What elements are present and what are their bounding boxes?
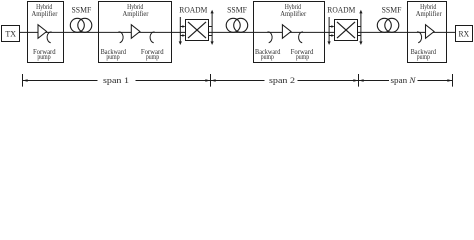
coupler forward pump arc HA2 bbox=[150, 32, 154, 43]
svg-text:pump: pump bbox=[417, 52, 430, 61]
node RX bbox=[456, 26, 473, 42]
ROADM2 box bbox=[335, 20, 358, 41]
label ROADM 1 bbox=[179, 4, 207, 14]
svg-text:span N: span N bbox=[391, 75, 417, 85]
amplifier triangle A3 bbox=[282, 25, 291, 39]
svg-text:Amplifier: Amplifier bbox=[32, 9, 58, 18]
label HA4 "Hybrid Amplifier" bbox=[416, 2, 442, 18]
svg-text:ROADM: ROADM bbox=[179, 4, 207, 14]
node TX bbox=[2, 26, 20, 42]
amplifier triangle A4 bbox=[426, 25, 435, 39]
svg-text:Amplifier: Amplifier bbox=[280, 9, 306, 18]
span ruler baseline bbox=[22, 80, 452, 82]
wire main bus bbox=[20, 31, 456, 33]
label HA2 "Backward pump" bbox=[101, 47, 126, 61]
label HA1 "Hybrid Amplifier" bbox=[32, 2, 58, 18]
coupler backward pump arc HA2 bbox=[119, 32, 124, 43]
label HA3 "Hybrid Amplifier" bbox=[280, 2, 306, 18]
svg-text:pump: pump bbox=[296, 52, 309, 61]
span ruler end bars bbox=[23, 74, 453, 87]
svg-text:pump: pump bbox=[261, 52, 274, 61]
fiber coil SSMF2 bbox=[226, 18, 248, 32]
label span 1 bbox=[98, 75, 136, 85]
svg-text:span 1: span 1 bbox=[103, 75, 129, 85]
label HA2 "Forward pump" bbox=[141, 47, 164, 61]
coupler forward pump arc HA3 bbox=[299, 32, 303, 43]
coupler backward pump arc HA3 bbox=[268, 32, 273, 43]
label span N bbox=[389, 75, 418, 85]
label SSMF 2 bbox=[227, 5, 247, 15]
hybrid amplifier HA1 box bbox=[28, 2, 64, 63]
svg-text:RX: RX bbox=[459, 28, 470, 38]
ROADM1 box bbox=[186, 20, 209, 41]
svg-text:pump: pump bbox=[106, 52, 119, 61]
span ruler arrowheads bbox=[23, 79, 453, 82]
label HA4 "Backward pump" bbox=[411, 47, 436, 61]
coupler backward pump arc HA4 bbox=[417, 32, 422, 43]
label ROADM 2 bbox=[327, 4, 355, 14]
hybrid amplifier HA2 box bbox=[99, 2, 172, 63]
svg-text:SSMF: SSMF bbox=[72, 5, 92, 15]
amplifier triangle A1 bbox=[38, 25, 47, 39]
ROADM2 add port right arrow bbox=[357, 10, 362, 45]
amplifier triangle A2 bbox=[131, 25, 140, 39]
label HA3 "Backward pump" bbox=[255, 47, 280, 61]
svg-text:ROADM: ROADM bbox=[327, 4, 355, 14]
label SSMF 1 bbox=[72, 5, 92, 15]
ROADM1 cross switch bbox=[188, 22, 206, 38]
svg-text:Amplifier: Amplifier bbox=[416, 9, 442, 18]
ROADM2 cross switch bbox=[337, 22, 355, 38]
ROADM1 drop port left arrow bbox=[179, 17, 186, 45]
fiber coil SSMF1 bbox=[70, 18, 92, 32]
svg-text:SSMF: SSMF bbox=[382, 5, 402, 15]
ROADM2 drop port left arrow bbox=[328, 17, 335, 45]
svg-text:pump: pump bbox=[37, 52, 50, 61]
coupler forward pump arc HA1 bbox=[47, 32, 51, 43]
label span 2 bbox=[265, 75, 298, 85]
svg-text:span 2: span 2 bbox=[269, 75, 295, 85]
svg-text:SSMF: SSMF bbox=[227, 5, 247, 15]
label HA3 "Forward pump" bbox=[291, 47, 314, 61]
hybrid amplifier HA3 box bbox=[254, 2, 325, 63]
label HA2 "Hybrid Amplifier" bbox=[123, 2, 149, 18]
svg-text:pump: pump bbox=[146, 52, 159, 61]
svg-text:TX: TX bbox=[5, 28, 16, 38]
svg-text:Amplifier: Amplifier bbox=[123, 9, 149, 18]
hybrid amplifier HA4 box bbox=[408, 2, 447, 63]
label SSMF 3 bbox=[382, 5, 402, 15]
fiber coil SSMF3 bbox=[377, 18, 399, 32]
label HA1 "Forward pump" bbox=[33, 47, 56, 61]
ROADM1 add port right arrow bbox=[208, 10, 213, 45]
